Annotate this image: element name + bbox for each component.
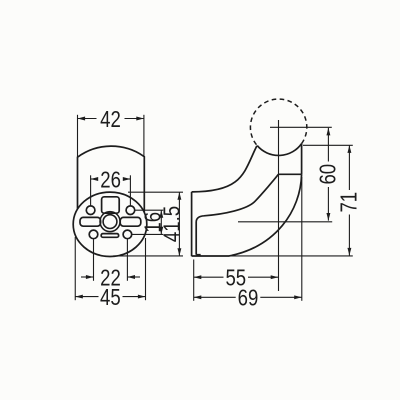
left view: screw hole bottom-left [89,230,98,239]
side view: inner sweep curve [229,174,302,256]
left view: screw hole top-right [126,206,135,215]
dim 41.5: extension lines [128,191,183,193]
dim 22: extension lines [93,239,95,280]
svg-text:41.5: 41.5 [159,206,185,242]
left view: square hole top center [102,197,120,213]
left view: center boss circle [100,212,120,232]
dim 42: dimension line [78,118,97,120]
side view: plate foot step [196,255,200,256]
dim 16: dimension line [160,210,162,234]
left view: screw hole top-left [86,206,95,215]
side view: bottom edge [192,255,229,257]
side view: wall plate left edge [191,192,193,256]
dim 69: right extension line [301,177,303,301]
side view: wall plate right face [195,222,197,255]
dim 69: dimension line [194,296,236,298]
left view: right slot [120,217,141,226]
extension line at flange mid height [238,221,332,223]
dim 45: dimension line [75,296,98,298]
left view: bottom slot [101,234,118,238]
left view: center hole [103,215,117,229]
dim 60: dimension line [327,128,329,162]
dim 55: dimension line [194,276,224,278]
rail centerline vertical [278,120,280,291]
dim 45: extension lines [74,237,76,300]
dim 71: dimension line [348,145,350,190]
dim 22: dimension line with outside arrows [81,276,94,278]
rail centerline horizontal [270,126,332,128]
dim 71: bottom extension line [229,255,353,257]
side view: inner horizontal line [278,173,301,175]
left view: screw hole bottom-right [123,230,132,239]
svg-text:69: 69 [238,285,259,311]
svg-text:45: 45 [100,284,121,310]
dim 16: leader lines from holes [135,209,163,211]
svg-text:26: 26 [100,166,121,192]
side view: saddle arc (cradle for rail) [257,144,301,156]
dim 41.5: dimension line [178,192,180,256]
dim 71: top extension line [303,144,353,146]
dim 42: extension lines [77,115,79,157]
left view: left slot [80,217,101,226]
svg-text:71: 71 [336,192,362,213]
dim 26: dimension line [91,178,98,180]
rail cross-section: dashed circle [250,99,306,146]
side view: outer curve of arm [192,146,257,192]
left view: arch body outline [78,146,145,211]
dim 55: left extension line [193,260,195,301]
side view: neck fillet and middle curve [196,174,278,221]
left view: flange disc (ellipse) [73,192,147,256]
svg-text:42: 42 [100,106,121,132]
svg-text:60: 60 [314,164,340,185]
side view: saddle right edge [301,144,303,175]
dim 26: extension lines [90,175,92,206]
